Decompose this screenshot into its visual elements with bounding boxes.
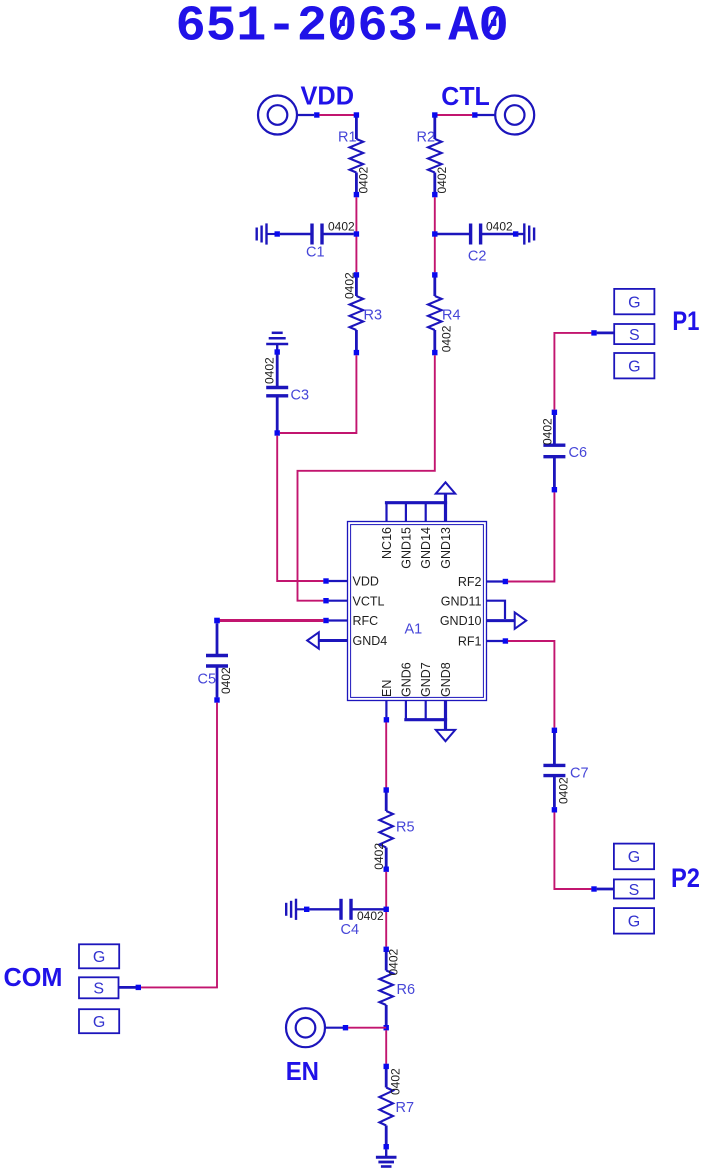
svg-text:G: G xyxy=(628,849,640,866)
pin RFC of A1 xyxy=(329,619,348,621)
svg-text:G: G xyxy=(93,1014,105,1031)
svg-text:GND15: GND15 xyxy=(399,527,413,569)
junction at VDD connector pin xyxy=(314,112,319,117)
junction C6 top xyxy=(552,410,557,415)
wire R2 to C2 node to R4 xyxy=(434,197,436,272)
pin GND8 of A1 xyxy=(444,701,447,720)
junction R5 top xyxy=(384,787,389,792)
svg-text:RF2: RF2 xyxy=(458,575,482,589)
svg-text:C6: C6 xyxy=(569,445,588,461)
junction at CTL connector pin xyxy=(472,112,477,117)
junction C4 node xyxy=(384,907,389,912)
ground (C2, bars right) xyxy=(516,223,534,244)
pin GND15 of A1 xyxy=(405,503,407,522)
capacitor C6 xyxy=(543,415,565,487)
svg-text:C5: C5 xyxy=(198,672,217,688)
junction R1 bottom xyxy=(354,192,359,197)
junction VDD/R1 corner xyxy=(354,112,359,117)
junction R6 top xyxy=(384,947,389,952)
ground arrow down (bottom of A1) xyxy=(436,720,455,742)
junction R3 bottom xyxy=(354,350,359,355)
junction C3 bottom / VDD net node xyxy=(275,430,280,435)
capacitor C3 xyxy=(266,355,288,431)
capacitor C4 xyxy=(309,899,383,920)
junction R4 top xyxy=(432,272,437,277)
svg-text:0402: 0402 xyxy=(486,220,513,234)
pin GND11 stub of A1 xyxy=(487,601,506,619)
wire C5 to COM connector xyxy=(141,703,217,988)
svg-text:0402: 0402 xyxy=(372,843,386,870)
stub P1 S pad xyxy=(597,331,614,334)
junction C7 top xyxy=(552,728,557,733)
svg-text:0402: 0402 xyxy=(440,325,454,352)
junction C5 top / RFC net xyxy=(214,618,220,624)
connector P2 pad G (top) xyxy=(614,844,654,870)
svg-text:R7: R7 xyxy=(396,1100,415,1116)
svg-text:0402: 0402 xyxy=(263,357,277,384)
connector VDD (coax pad) xyxy=(258,96,314,135)
junction R3 top xyxy=(354,272,359,277)
wire EN connector to EN node xyxy=(348,1027,386,1029)
pin VDD of A1 xyxy=(329,580,348,582)
pin VCTL of A1 xyxy=(329,600,348,602)
junction R4 bottom xyxy=(432,350,437,355)
power arrow up (top of A1) xyxy=(436,482,455,502)
stub P2 S pad xyxy=(597,888,614,891)
wire IC EN pin down to R5 xyxy=(385,722,387,787)
svg-text:C1: C1 xyxy=(306,245,325,261)
svg-text:NC16: NC16 xyxy=(380,527,394,559)
pin GND6 of A1 xyxy=(405,701,407,720)
junction C4 ground side xyxy=(304,907,309,912)
svg-text:S: S xyxy=(93,981,104,998)
junction R2 bottom xyxy=(432,192,437,197)
ground (C1, bars left) xyxy=(257,223,275,244)
svg-text:G: G xyxy=(93,949,105,966)
svg-text:0402: 0402 xyxy=(435,166,449,193)
bottom ground bus of A1 xyxy=(404,718,447,721)
svg-text:EN: EN xyxy=(286,1056,319,1086)
capacitor C5 xyxy=(206,623,228,697)
svg-text:P1: P1 xyxy=(672,306,699,336)
svg-text:R5: R5 xyxy=(396,820,415,836)
connector P1 pad G (bottom) xyxy=(614,353,654,378)
pin GND4 of A1 with left arrow ground xyxy=(307,632,347,648)
svg-text:651-2063-A0: 651-2063-A0 xyxy=(176,0,509,56)
capacitor C2 xyxy=(437,224,513,245)
svg-text:C4: C4 xyxy=(341,922,360,938)
pin EN of A1 xyxy=(385,701,387,718)
svg-text:0402: 0402 xyxy=(343,272,357,299)
pin GND13 of A1 xyxy=(444,503,447,522)
wire R6 to R7 xyxy=(385,1030,387,1064)
svg-text:CTL: CTL xyxy=(441,81,490,111)
svg-text:C2: C2 xyxy=(468,249,487,265)
connector P2 pad G (bottom) xyxy=(614,908,654,934)
ground (C4, bars left) xyxy=(286,899,304,920)
wire C3 node to IC pin VDD xyxy=(277,436,323,581)
resistor R7 xyxy=(379,1069,393,1144)
svg-text:S: S xyxy=(629,882,640,899)
junction R5 bottom xyxy=(384,867,389,872)
title 651-2063-A0 xyxy=(176,0,509,56)
connector P2 pad S xyxy=(614,879,654,898)
wire C6 to P1 connector xyxy=(554,333,591,410)
junction R6 bottom / EN node xyxy=(384,1025,389,1030)
svg-text:0402: 0402 xyxy=(389,1068,403,1095)
wire RFC to C5 node (thick) xyxy=(217,619,323,622)
connector COM pad G (top) xyxy=(79,944,119,968)
wire VDD connector to R1 xyxy=(319,114,356,116)
junction C1 ground side xyxy=(275,231,280,236)
svg-text:C7: C7 xyxy=(570,766,589,782)
svg-text:GND13: GND13 xyxy=(439,527,453,569)
pin RF2 of A1 xyxy=(487,580,504,582)
svg-text:0402: 0402 xyxy=(541,418,555,445)
capacitor C1 xyxy=(280,224,354,245)
wire R3 to C3 node xyxy=(280,355,357,433)
ground (C3, bars up) xyxy=(266,333,288,350)
junction C1 node xyxy=(354,231,359,236)
junction C5 bottom xyxy=(214,697,219,702)
connector COM pad G (bottom) xyxy=(79,1009,119,1033)
svg-text:GND10: GND10 xyxy=(440,614,482,628)
connector P1 pad S xyxy=(614,324,654,344)
svg-text:VCTL: VCTL xyxy=(353,594,385,608)
connector COM pad S xyxy=(79,977,119,998)
resistor R2 xyxy=(428,118,442,193)
junction C2 ground side xyxy=(513,231,518,236)
svg-text:COM: COM xyxy=(4,962,63,992)
junction C3 top xyxy=(275,349,280,354)
pin GND10 of A1 with right arrow ground xyxy=(487,612,527,628)
wire R4 to IC pin VCTL xyxy=(298,355,435,601)
svg-text:0402: 0402 xyxy=(357,166,371,193)
stub COM S pad xyxy=(119,986,136,989)
junction at P2 S pad xyxy=(591,886,596,891)
svg-text:GND11: GND11 xyxy=(441,594,482,608)
capacitor C7 xyxy=(543,733,565,807)
wire CTL connector to R2 xyxy=(435,114,472,116)
resistor R6 xyxy=(379,952,393,1025)
pin RF1 of A1 xyxy=(487,640,504,642)
resistor R1 xyxy=(350,118,364,193)
junction C7 bottom xyxy=(552,807,557,812)
pin GND14 of A1 xyxy=(425,503,427,522)
svg-text:GND8: GND8 xyxy=(439,662,453,697)
resistor R3 xyxy=(350,277,364,350)
svg-text:GND6: GND6 xyxy=(399,662,413,697)
resistor R4 xyxy=(428,277,442,350)
svg-text:G: G xyxy=(628,359,640,376)
connector CTL (coax pad) xyxy=(478,96,535,135)
svg-text:0402: 0402 xyxy=(219,667,233,694)
svg-text:RFC: RFC xyxy=(353,614,379,628)
wire R5 to C4 node to R6 xyxy=(385,872,387,947)
svg-text:0402: 0402 xyxy=(328,220,355,234)
svg-text:EN: EN xyxy=(380,680,394,697)
svg-text:0402: 0402 xyxy=(557,777,571,804)
wire R1 to C1 node to R3 xyxy=(355,197,357,272)
connector P1 pad G (top) xyxy=(614,289,654,314)
svg-text:GND7: GND7 xyxy=(419,662,433,697)
junction at P1 S pad xyxy=(591,330,596,335)
svg-text:R1: R1 xyxy=(338,130,357,146)
wire C7 to P2 connector xyxy=(554,812,591,889)
svg-text:G: G xyxy=(628,294,640,311)
svg-text:R4: R4 xyxy=(442,308,461,324)
svg-text:P2: P2 xyxy=(671,863,700,893)
svg-text:GND14: GND14 xyxy=(419,527,433,569)
svg-text:0402: 0402 xyxy=(357,909,384,923)
pin GND7 of A1 xyxy=(425,701,427,720)
top ground bus of A1 xyxy=(385,501,447,504)
wire IC RF1 to C7 xyxy=(508,641,555,728)
junction R7 top xyxy=(384,1064,389,1069)
junction C6 bottom xyxy=(552,487,557,492)
svg-text:S: S xyxy=(629,327,640,344)
svg-text:R3: R3 xyxy=(364,308,383,324)
svg-text:VDD: VDD xyxy=(301,80,355,110)
svg-text:G: G xyxy=(628,914,640,931)
pin NC16 of A1 xyxy=(385,503,387,522)
resistor R5 xyxy=(379,793,393,867)
junction R7 bottom xyxy=(384,1144,389,1149)
svg-text:R2: R2 xyxy=(417,130,436,146)
junction C2 node xyxy=(432,231,437,236)
op-amp/IC A1 body xyxy=(348,522,487,701)
svg-text:GND4: GND4 xyxy=(353,634,388,648)
svg-text:0402: 0402 xyxy=(386,948,400,975)
junction at COM S pad xyxy=(136,985,141,990)
ground (bottom of R7) xyxy=(376,1149,397,1166)
svg-text:RF1: RF1 xyxy=(458,635,482,649)
junction at EN connector pin xyxy=(343,1025,348,1030)
connector EN (coax pad) xyxy=(286,1008,343,1047)
svg-text:C3: C3 xyxy=(291,388,310,404)
svg-text:A1: A1 xyxy=(405,622,423,638)
junction CTL/R2 corner xyxy=(432,112,437,117)
svg-text:R6: R6 xyxy=(397,982,416,998)
svg-text:VDD: VDD xyxy=(353,575,379,589)
wire IC RF2 to C6 xyxy=(508,492,555,581)
